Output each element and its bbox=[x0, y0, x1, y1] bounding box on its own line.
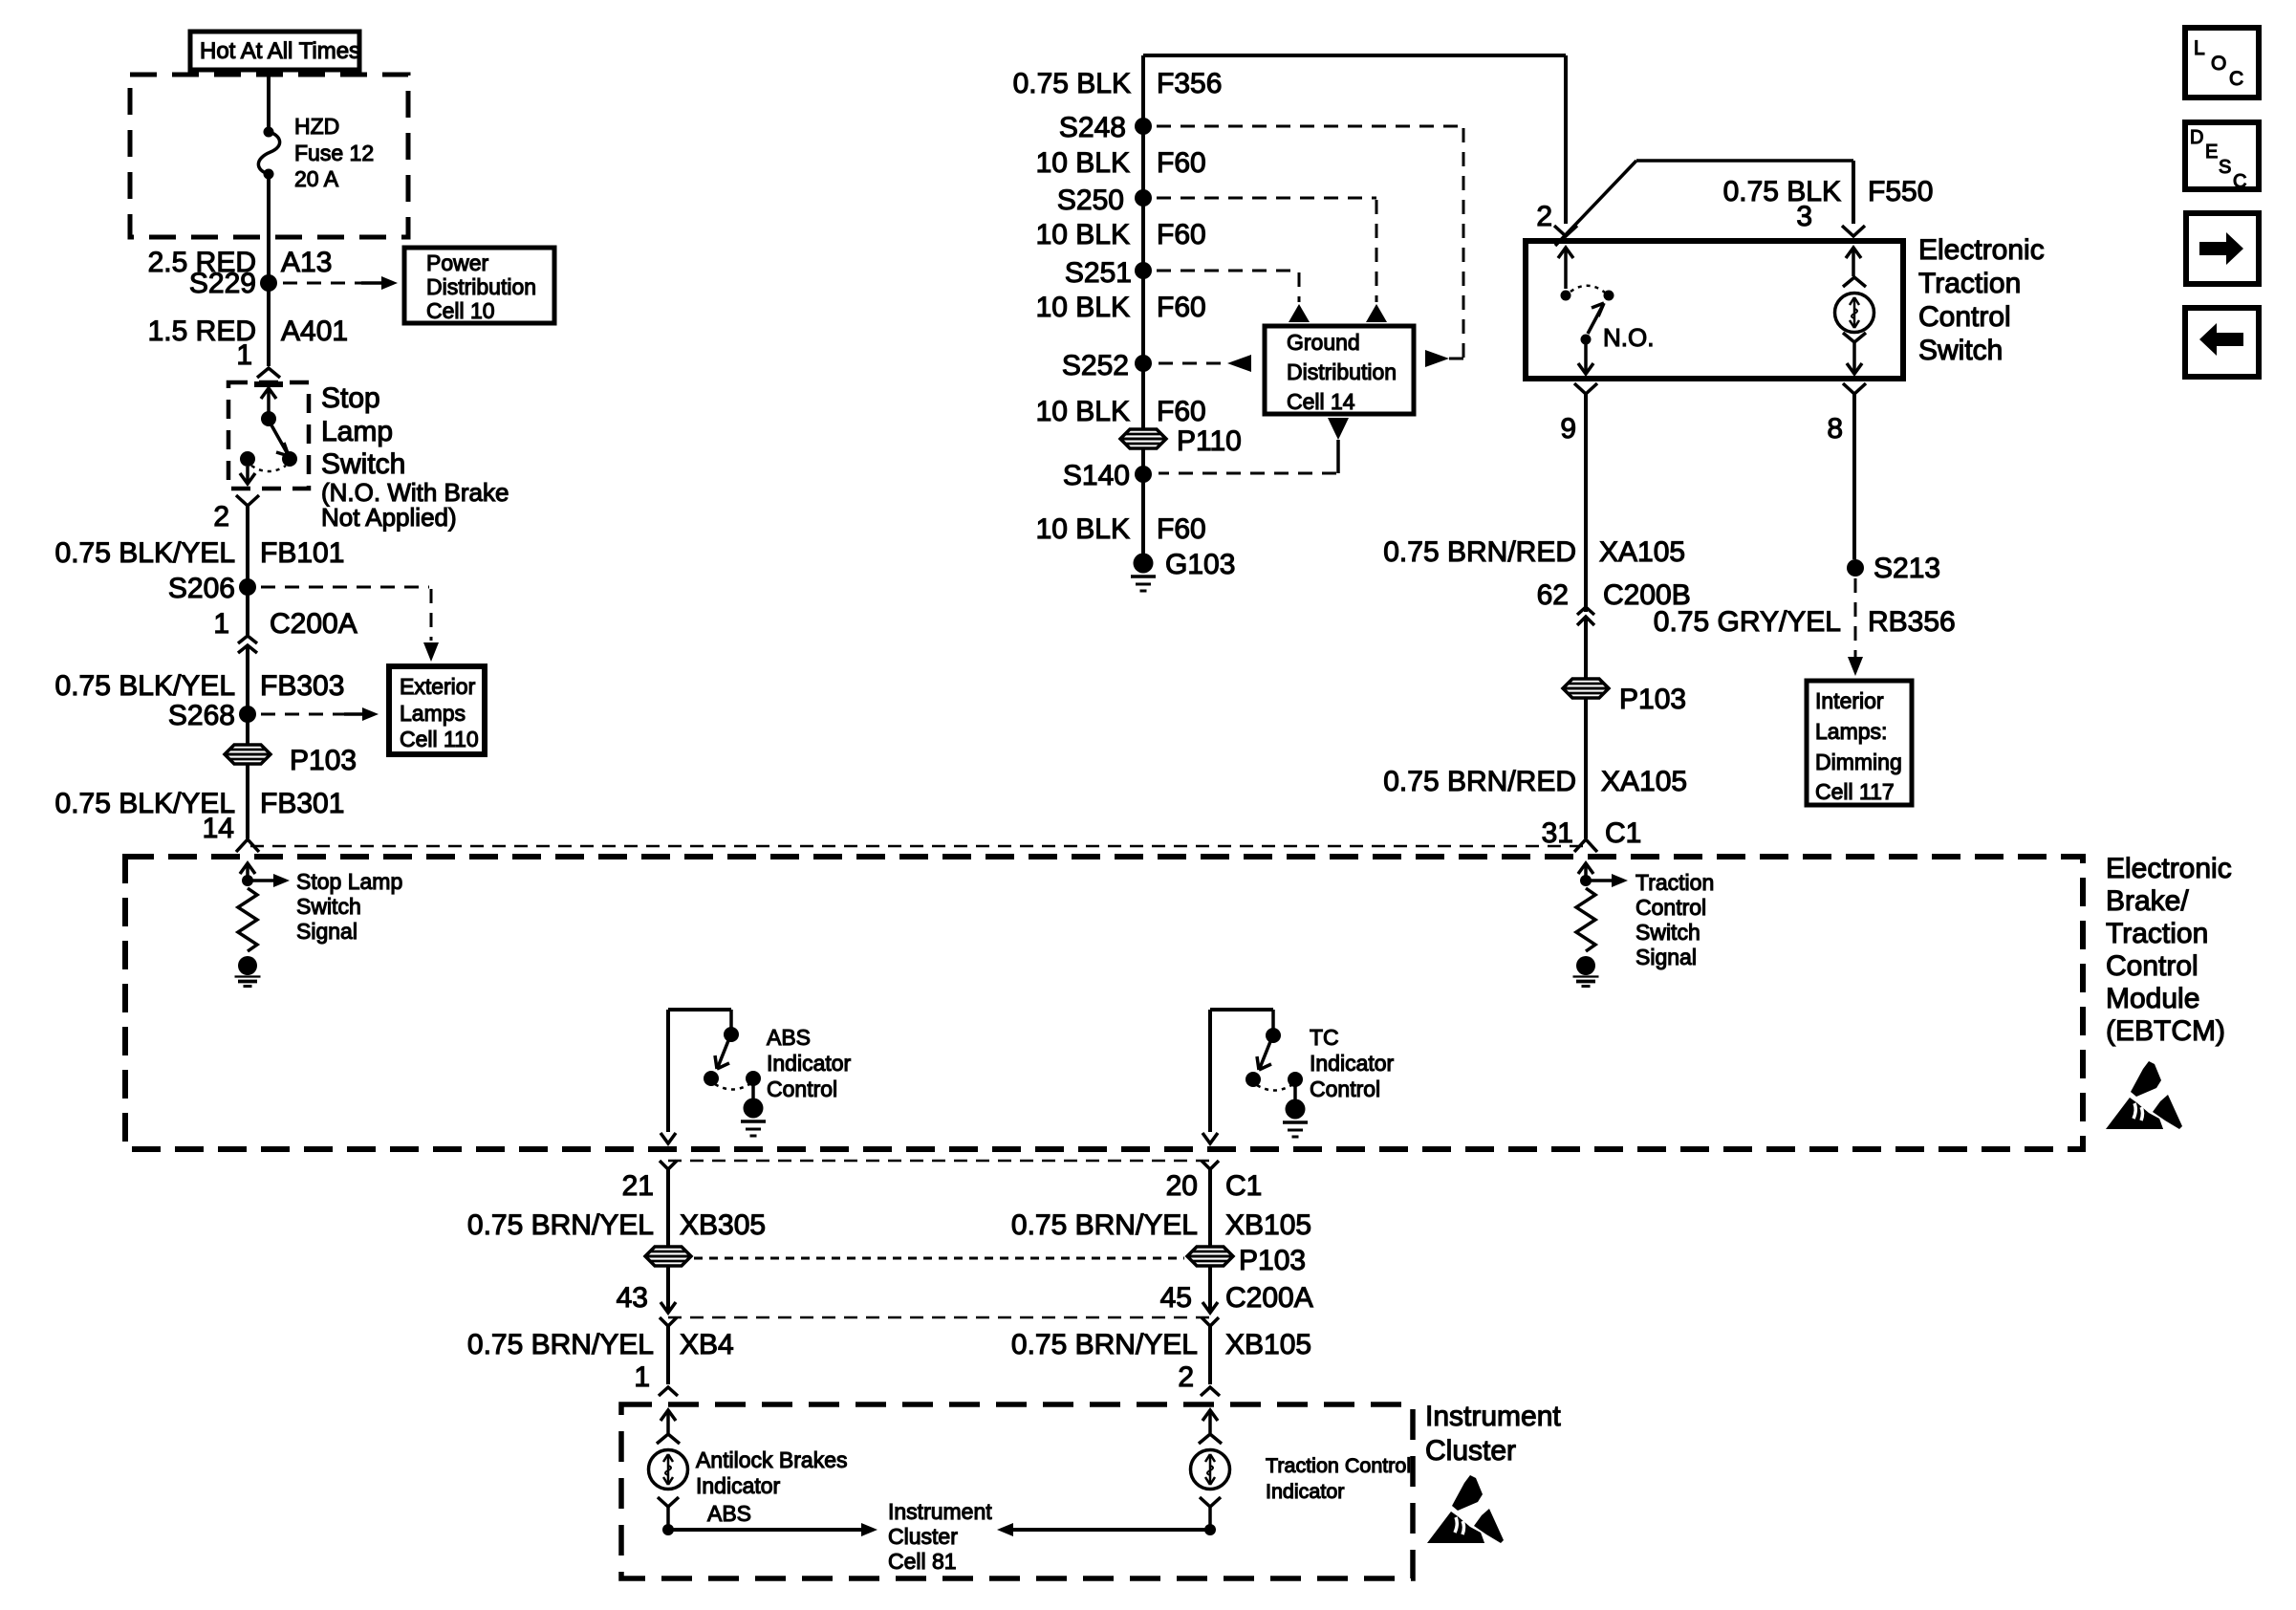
cell box: Interior Lamps Dimming Cell 117 bbox=[1807, 681, 1912, 805]
svg-text:S248: S248 bbox=[1059, 112, 1126, 143]
svg-text:0.75 BRN/YEL: 0.75 BRN/YEL bbox=[467, 1209, 654, 1241]
wire C200A to cluster pin 2 bbox=[1208, 1326, 1212, 1384]
resistor stop lamp signal bbox=[238, 888, 257, 951]
svg-text:C: C bbox=[2233, 171, 2246, 192]
svg-text:P103: P103 bbox=[290, 745, 357, 776]
wire label 2.5 RED A13 bbox=[148, 247, 333, 278]
svg-text:0.75 BRN/YEL: 0.75 BRN/YEL bbox=[1011, 1329, 1198, 1360]
wire P103 to EBTCM pin 31 bbox=[1584, 697, 1588, 838]
svg-text:C: C bbox=[2229, 68, 2243, 90]
label ABS Indicator Control bbox=[767, 1025, 852, 1101]
svg-text:0.75 BLK: 0.75 BLK bbox=[1723, 176, 1841, 207]
connector C200B ticks bbox=[1577, 607, 1594, 625]
svg-text:P103: P103 bbox=[1239, 1245, 1306, 1276]
connector C1 thin dashed line (lower) bbox=[668, 1160, 1210, 1163]
svg-text:F60: F60 bbox=[1157, 396, 1206, 427]
wire fuse to S229 bbox=[267, 174, 271, 366]
connector C200A pin 1 label bbox=[213, 608, 357, 640]
svg-text:Traction: Traction bbox=[1635, 870, 1714, 895]
svg-text:Indicator: Indicator bbox=[1310, 1051, 1395, 1076]
svg-text:10 BLK: 10 BLK bbox=[1036, 292, 1130, 323]
connector C200B pin 62 label bbox=[1537, 579, 1691, 611]
svg-text:G103: G103 bbox=[1165, 549, 1235, 580]
wire pin 8 to S213 bbox=[1852, 394, 1856, 559]
svg-text:2: 2 bbox=[1178, 1361, 1194, 1393]
wire label 0.75 BLK F550 bbox=[1723, 176, 1934, 207]
svg-text:F60: F60 bbox=[1157, 292, 1206, 323]
svg-text:Lamp: Lamp bbox=[321, 416, 393, 447]
svg-text:Module: Module bbox=[2106, 983, 2199, 1014]
stop lamp switch contacts bbox=[240, 388, 297, 484]
module box Instrument Cluster bbox=[621, 1404, 1413, 1578]
svg-text:O: O bbox=[2211, 53, 2226, 75]
svg-text:F550: F550 bbox=[1868, 176, 1933, 207]
wire C200A to P103 bbox=[246, 646, 249, 746]
svg-text:10 BLK: 10 BLK bbox=[1036, 513, 1130, 545]
svg-text:0.75 BLK/YEL: 0.75 BLK/YEL bbox=[55, 670, 235, 702]
wire label 10 BLK F60 (2) bbox=[1036, 219, 1206, 250]
connector C200A tick left bbox=[660, 1317, 677, 1326]
svg-text:XB105: XB105 bbox=[1225, 1329, 1311, 1360]
wire P103 to C200A left bbox=[661, 1267, 676, 1313]
svg-text:Lamps: Lamps bbox=[400, 701, 466, 726]
svg-text:(EBTCM): (EBTCM) bbox=[2106, 1015, 2225, 1047]
resistor traction control signal bbox=[1576, 888, 1595, 951]
svg-text:Switch: Switch bbox=[1635, 920, 1700, 945]
svg-text:1: 1 bbox=[236, 339, 252, 371]
svg-text:14: 14 bbox=[203, 813, 234, 844]
svg-text:XA105: XA105 bbox=[1599, 536, 1685, 568]
connector tick cluster pin 2 bbox=[1201, 1387, 1220, 1396]
svg-text:Instrument: Instrument bbox=[1425, 1401, 1561, 1432]
ground stop lamp signal bbox=[235, 956, 261, 987]
svg-text:Cluster: Cluster bbox=[888, 1524, 958, 1549]
svg-text:C1: C1 bbox=[1225, 1170, 1262, 1202]
svg-text:Cell 14: Cell 14 bbox=[1287, 389, 1355, 414]
cell box: Power Distribution Cell 10 bbox=[404, 248, 554, 323]
svg-text:S251: S251 bbox=[1065, 257, 1132, 289]
wire label 10 BLK F60 (3) bbox=[1036, 292, 1206, 323]
switch lamp inside box bbox=[1835, 248, 1874, 374]
svg-text:Switch: Switch bbox=[296, 894, 361, 919]
component label: Electronic Brake/Traction Control Module (EBTCM) bbox=[2106, 853, 2232, 1047]
arrow TC to instrument cluster cell bbox=[997, 1523, 1206, 1536]
svg-text:Antilock Brakes: Antilock Brakes bbox=[696, 1447, 848, 1472]
wire label 0.75 BRN/YEL XB105 bbox=[1011, 1209, 1311, 1241]
dashed wire S268 to Exterior Lamps bbox=[261, 707, 379, 721]
svg-text:Stop: Stop bbox=[321, 382, 380, 414]
svg-text:Signal: Signal bbox=[296, 919, 357, 944]
svg-text:21: 21 bbox=[622, 1170, 654, 1202]
svg-text:FB303: FB303 bbox=[260, 670, 344, 702]
svg-text:Cell 10: Cell 10 bbox=[426, 298, 495, 323]
wire F356 top run to switch pin 2 bbox=[1143, 55, 1566, 224]
wire label 0.75 GRY/YEL RB356 bbox=[1654, 606, 1956, 638]
svg-text:S213: S213 bbox=[1874, 553, 1940, 584]
wire from Hot At All Times to fuse bbox=[267, 70, 271, 132]
connector tick pin 21 bbox=[660, 1161, 677, 1169]
svg-text:Indicator: Indicator bbox=[767, 1051, 852, 1076]
svg-text:Lamps:: Lamps: bbox=[1815, 719, 1887, 744]
connector tick cluster pin 1 bbox=[659, 1387, 678, 1396]
svg-text:E: E bbox=[2205, 141, 2218, 163]
svg-text:XA105: XA105 bbox=[1601, 766, 1687, 797]
svg-text:20: 20 bbox=[1166, 1170, 1198, 1202]
wire label 10 BLK F60 (5) bbox=[1036, 513, 1206, 545]
svg-text:Traction: Traction bbox=[1918, 268, 2021, 299]
svg-text:10 BLK: 10 BLK bbox=[1036, 396, 1130, 427]
svg-text:Distribution: Distribution bbox=[1287, 359, 1397, 384]
icon box DESC bbox=[2185, 122, 2259, 192]
connector C200A ticks bbox=[238, 636, 257, 653]
svg-text:P110: P110 bbox=[1177, 425, 1242, 457]
svg-text:0.75 BLK: 0.75 BLK bbox=[1013, 68, 1131, 99]
wire label 0.75 BLK/YEL FB303 bbox=[55, 670, 345, 702]
svg-text:ABS: ABS bbox=[707, 1501, 751, 1526]
pin 31 label bbox=[1542, 817, 1642, 849]
wire label 0.75 BRN/YEL XB305 bbox=[467, 1209, 766, 1241]
wire pin 20 to P103 bbox=[1208, 1169, 1212, 1247]
wire P103 to C200A right bbox=[1202, 1267, 1218, 1313]
svg-text:Ground: Ground bbox=[1287, 330, 1360, 355]
cell box: Exterior Lamps Cell 110 bbox=[389, 666, 485, 754]
pass-through grommet P103 bbox=[225, 745, 357, 776]
svg-text:Stop Lamp: Stop Lamp bbox=[296, 869, 402, 894]
dashed wire S252 to Ground Distribution bbox=[1159, 355, 1251, 372]
svg-text:20 A: 20 A bbox=[294, 166, 339, 191]
svg-text:Traction Control: Traction Control bbox=[1266, 1454, 1411, 1477]
module box EBTCM bbox=[125, 857, 2083, 1149]
svg-text:Switch: Switch bbox=[1918, 335, 2003, 366]
connector tick pin 14 bbox=[236, 839, 259, 852]
wire C200A to cluster pin 1 bbox=[666, 1326, 670, 1384]
icon box LOC bbox=[2185, 28, 2259, 98]
svg-text:C1: C1 bbox=[1605, 817, 1641, 849]
svg-text:Fuse 12: Fuse 12 bbox=[294, 141, 374, 165]
svg-text:Indicator: Indicator bbox=[696, 1473, 781, 1498]
svg-text:XB4: XB4 bbox=[680, 1329, 734, 1360]
node S250 bbox=[1057, 185, 1152, 216]
svg-text:0.75 BRN/RED: 0.75 BRN/RED bbox=[1383, 536, 1576, 568]
svg-text:Electronic: Electronic bbox=[2106, 853, 2232, 884]
node S140 bbox=[1063, 460, 1152, 491]
svg-text:Dimming: Dimming bbox=[1815, 750, 1902, 774]
node ABS junction bbox=[662, 1524, 674, 1535]
wire label 0.75 BRN/YEL XB4 bbox=[467, 1329, 734, 1360]
svg-text:Control: Control bbox=[2106, 950, 2199, 982]
svg-text:Traction: Traction bbox=[2106, 918, 2208, 949]
svg-text:ABS: ABS bbox=[767, 1025, 811, 1050]
pin 20 label bbox=[1166, 1170, 1263, 1202]
pass-through grommet P103 left bbox=[645, 1247, 691, 1266]
svg-text:3: 3 bbox=[1796, 201, 1812, 232]
svg-text:S206: S206 bbox=[168, 573, 235, 604]
node S268 bbox=[168, 700, 256, 731]
node S251 bbox=[1065, 257, 1152, 289]
svg-text:L: L bbox=[2194, 37, 2205, 59]
svg-text:Control: Control bbox=[1310, 1077, 1380, 1101]
connector tick pin 9 bbox=[1574, 383, 1597, 394]
wire pin2 to C200A bbox=[246, 506, 249, 635]
wire F550 pin2 to pin3 bbox=[1555, 161, 1853, 246]
svg-text:31: 31 bbox=[1542, 817, 1573, 849]
svg-text:0.75 BRN/YEL: 0.75 BRN/YEL bbox=[1011, 1209, 1198, 1241]
label Stop Lamp Switch Signal bbox=[296, 869, 402, 944]
svg-text:0.75 BRN/RED: 0.75 BRN/RED bbox=[1383, 766, 1576, 797]
svg-text:1: 1 bbox=[634, 1361, 650, 1393]
svg-text:8: 8 bbox=[1827, 413, 1843, 445]
fuse value label bbox=[294, 114, 374, 191]
connector tick pin 20 bbox=[1202, 1161, 1219, 1169]
svg-text:45: 45 bbox=[1160, 1282, 1192, 1314]
svg-text:S250: S250 bbox=[1057, 185, 1124, 216]
wire pin 9 to C200B bbox=[1584, 394, 1588, 612]
main ground wire bbox=[1141, 55, 1145, 555]
svg-text:S: S bbox=[2219, 157, 2231, 178]
svg-text:9: 9 bbox=[1560, 413, 1576, 445]
svg-text:10 BLK: 10 BLK bbox=[1036, 219, 1130, 250]
svg-text:Not Applied): Not Applied) bbox=[321, 503, 457, 532]
connector tick pin 31 bbox=[1574, 839, 1597, 852]
switch N.O. contacts inside box bbox=[1558, 248, 1654, 374]
label Antilock Brakes Indicator bbox=[696, 1447, 848, 1498]
cell box: Ground Distribution Cell 14 bbox=[1265, 326, 1414, 414]
label TC Indicator Control bbox=[1310, 1025, 1395, 1101]
connector tick pin 8 bbox=[1843, 383, 1866, 394]
svg-text:Indicator: Indicator bbox=[1266, 1480, 1344, 1503]
svg-text:F356: F356 bbox=[1157, 68, 1222, 99]
svg-text:S229: S229 bbox=[189, 268, 256, 299]
svg-text:Interior: Interior bbox=[1815, 688, 1884, 713]
svg-text:Distribution: Distribution bbox=[426, 274, 536, 299]
svg-text:Power: Power bbox=[426, 250, 489, 275]
traction control indicator lamp bbox=[1191, 1410, 1230, 1530]
svg-text:F60: F60 bbox=[1157, 147, 1206, 179]
wire pin 21 to P103 bbox=[666, 1169, 670, 1247]
svg-text:62: 62 bbox=[1537, 579, 1569, 611]
fuse block dashed box bbox=[130, 75, 408, 237]
node S229 bbox=[189, 268, 277, 299]
ABS indicator control switch bbox=[661, 1010, 766, 1143]
wire label 0.75 BLK/YEL FB301 bbox=[55, 788, 345, 819]
svg-text:XB305: XB305 bbox=[680, 1209, 766, 1241]
pass-through grommet P103 right bbox=[1187, 1245, 1306, 1276]
svg-text:1: 1 bbox=[213, 608, 229, 640]
pin 45 label bbox=[1160, 1282, 1313, 1314]
wire label 10 BLK F60 (4) bbox=[1036, 396, 1206, 427]
svg-text:10 BLK: 10 BLK bbox=[1036, 147, 1130, 179]
svg-text:Hot At All Times: Hot At All Times bbox=[200, 38, 360, 64]
label Traction Control Indicator bbox=[1266, 1454, 1411, 1503]
wire label 0.75 BRN/YEL XB105 (2) bbox=[1011, 1329, 1311, 1360]
svg-text:S140: S140 bbox=[1063, 460, 1130, 491]
dashed wire S250 to Ground Distribution bbox=[1157, 198, 1387, 322]
ground traction control signal bbox=[1573, 956, 1599, 987]
svg-text:Cell 81: Cell 81 bbox=[888, 1549, 957, 1574]
svg-text:2: 2 bbox=[1536, 201, 1552, 232]
fuse HZD Fuse 12 20A bbox=[258, 127, 279, 180]
ESD symbol Instrument Cluster bbox=[1427, 1475, 1504, 1543]
node S206 bbox=[168, 573, 256, 604]
wire C200B to P103 bbox=[1584, 618, 1588, 680]
svg-text:A401: A401 bbox=[281, 315, 348, 347]
dashed wire S229 to Power Distribution bbox=[283, 276, 398, 290]
svg-text:0.75 GRY/YEL: 0.75 GRY/YEL bbox=[1654, 606, 1841, 638]
dashed wire Ground Distribution to S140 bbox=[1159, 418, 1349, 473]
svg-text:RB356: RB356 bbox=[1868, 606, 1956, 638]
svg-text:43: 43 bbox=[617, 1282, 648, 1314]
node S213 bbox=[1847, 553, 1940, 584]
svg-text:XB105: XB105 bbox=[1225, 1209, 1311, 1241]
stop lamp switch dashed box bbox=[228, 382, 309, 489]
icon box arrow left bbox=[2185, 308, 2259, 377]
svg-text:2: 2 bbox=[213, 501, 229, 533]
connector tick pin 3 bbox=[1842, 226, 1865, 236]
svg-text:F60: F60 bbox=[1157, 513, 1206, 545]
stop lamp switch signal input bbox=[240, 863, 290, 887]
svg-text:S268: S268 bbox=[168, 700, 235, 731]
icon box arrow right bbox=[2186, 213, 2259, 284]
dashed wire S213 to Interior Lamps bbox=[1848, 578, 1863, 676]
wire label 0.75 BRN/RED XA105 (2) bbox=[1383, 766, 1687, 797]
svg-text:C200A: C200A bbox=[270, 608, 357, 640]
svg-text:F60: F60 bbox=[1157, 219, 1206, 250]
antilock brakes indicator lamp bbox=[649, 1410, 688, 1530]
dashed tie between P103 grommets bbox=[694, 1257, 1184, 1260]
wire label 0.75 BRN/RED XA105 bbox=[1383, 536, 1685, 568]
svg-text:D: D bbox=[2190, 127, 2203, 148]
svg-text:Cell 117: Cell 117 bbox=[1815, 779, 1895, 804]
node S252 bbox=[1062, 350, 1152, 381]
svg-text:Cluster: Cluster bbox=[1425, 1435, 1516, 1467]
svg-text:Electronic: Electronic bbox=[1918, 234, 2045, 266]
traction control switch signal input bbox=[1578, 863, 1628, 887]
connector C1 thin dashed line bbox=[250, 845, 1583, 848]
svg-text:C200A: C200A bbox=[1225, 1282, 1313, 1314]
dashed wire S206 to Exterior Lamps bbox=[261, 587, 439, 662]
wire P103 to EBTCM pin 14 bbox=[246, 763, 249, 838]
wire label 1.5 RED A401 bbox=[148, 315, 348, 347]
component label: Stop Lamp Switch bbox=[321, 382, 509, 532]
arrow ABS to instrument cluster cell bbox=[672, 1523, 877, 1536]
svg-text:0.75 BRN/YEL: 0.75 BRN/YEL bbox=[467, 1329, 654, 1360]
wire label 10 BLK F60 (1) bbox=[1036, 147, 1206, 179]
svg-text:FB301: FB301 bbox=[260, 788, 344, 819]
svg-text:TC: TC bbox=[1310, 1025, 1339, 1050]
label Instrument Cluster Cell 81 bbox=[888, 1499, 992, 1574]
component box: Electronic Traction Control Switch bbox=[1526, 241, 1903, 379]
svg-text:Control: Control bbox=[1918, 301, 2011, 333]
pass-through grommet P110 bbox=[1120, 425, 1242, 457]
svg-text:Instrument: Instrument bbox=[888, 1499, 992, 1524]
label Traction Control Switch Signal bbox=[1635, 870, 1714, 969]
svg-text:Control: Control bbox=[1635, 895, 1706, 920]
label box: Hot At All Times bbox=[190, 32, 360, 70]
ESD symbol EBTCM bbox=[2106, 1061, 2182, 1129]
connector tick pin 2 bbox=[236, 495, 259, 506]
node S248 bbox=[1059, 112, 1152, 143]
connector C200A thin dashed line bbox=[668, 1316, 1210, 1319]
connector tick pin 2 bbox=[1554, 226, 1577, 236]
svg-text:A13: A13 bbox=[281, 247, 332, 278]
svg-text:Cell 110: Cell 110 bbox=[400, 727, 479, 751]
connector C200A tick right bbox=[1202, 1317, 1219, 1326]
pass-through grommet P103 bbox=[1563, 679, 1686, 715]
svg-text:HZD: HZD bbox=[294, 114, 339, 139]
TC indicator control switch bbox=[1202, 1010, 1308, 1143]
svg-text:S252: S252 bbox=[1062, 350, 1129, 381]
svg-text:0.75 BLK/YEL: 0.75 BLK/YEL bbox=[55, 537, 235, 569]
svg-text:FB101: FB101 bbox=[260, 537, 344, 569]
svg-text:Brake/: Brake/ bbox=[2106, 885, 2189, 917]
dashed wire S251 to Ground Distribution bbox=[1157, 271, 1310, 322]
node TC junction bbox=[1204, 1524, 1216, 1535]
svg-text:N.O.: N.O. bbox=[1603, 323, 1654, 352]
component label: Electronic Traction Control Switch bbox=[1918, 234, 2045, 366]
connector tick pin 1 bbox=[257, 368, 280, 378]
dashed wire S248 to Ground Distribution bbox=[1157, 126, 1463, 367]
svg-text:Exterior: Exterior bbox=[400, 674, 476, 699]
svg-text:P103: P103 bbox=[1619, 684, 1686, 715]
svg-text:Signal: Signal bbox=[1635, 945, 1697, 969]
component label: Instrument Cluster bbox=[1425, 1401, 1561, 1467]
wire label 0.75 BLK/YEL FB101 bbox=[55, 537, 345, 569]
ground G103 bbox=[1131, 549, 1235, 591]
svg-text:Control: Control bbox=[767, 1077, 837, 1101]
wire label 0.75 BLK F356 bbox=[1013, 68, 1223, 99]
svg-text:Switch: Switch bbox=[321, 448, 405, 480]
